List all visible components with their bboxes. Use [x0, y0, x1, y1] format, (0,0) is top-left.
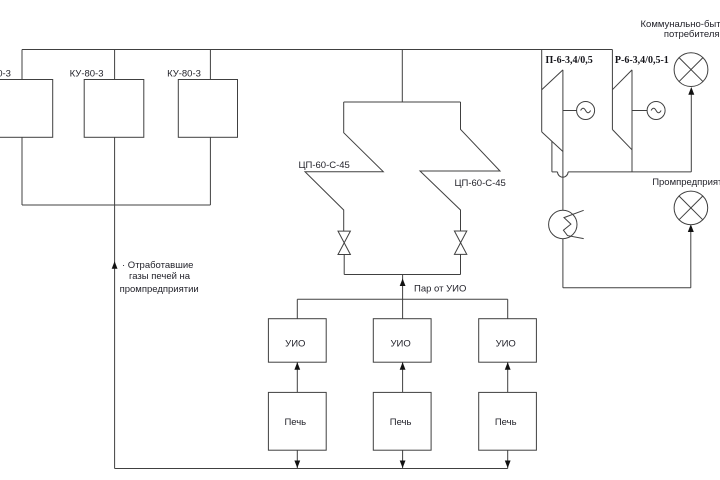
- wire: boiler1 bottom drop: [21, 137, 23, 205]
- wire+arrow furnace3 exhaust down: [505, 450, 511, 468]
- wire: HX outlet down: [562, 239, 564, 288]
- wire: boiler2 top riser: [114, 50, 116, 80]
- valve V2: [454, 231, 466, 254]
- note: waste gases text: [120, 260, 199, 295]
- arrow: flue gas up: [112, 261, 118, 268]
- wire: bottom gas bus: [115, 468, 508, 470]
- unit TsP-60-S-45 #2 (right zigzag leg): [420, 102, 500, 231]
- wire: boiler3 top riser: [209, 50, 211, 80]
- svg-text:КУ-80-3: КУ-80-3: [0, 69, 11, 80]
- svg-text:КУ-80-3: КУ-80-3: [70, 69, 104, 80]
- svg-text:ЦП-60-С-45: ЦП-60-С-45: [299, 160, 350, 171]
- wire: steam riser from UIO collector: [402, 275, 404, 300]
- svg-text:П-6-3,4/0,5: П-6-3,4/0,5: [546, 55, 593, 66]
- box UIO #2: [373, 319, 431, 363]
- svg-text:УИО: УИО: [285, 339, 305, 350]
- box furnace #3: [479, 392, 537, 450]
- wire+arrow furnace3 to UIO3: [505, 362, 511, 392]
- box furnace #1: [268, 392, 326, 450]
- boiler KU-80-3 #2: [84, 80, 144, 138]
- wire+arrow to communal consumers: [688, 87, 694, 172]
- wire: flue-gas collector: [22, 204, 210, 206]
- wire: TsP top header: [344, 101, 461, 103]
- svg-text:· Отработавшие: · Отработавшие: [122, 260, 193, 271]
- svg-text:ЦП-60-С-45: ЦП-60-С-45: [455, 178, 506, 189]
- consumer lamp: communal: [674, 53, 708, 87]
- box UIO #3: [479, 319, 537, 363]
- wire: boiler1 top riser: [21, 50, 23, 80]
- consumer lamp: industry: [674, 191, 708, 225]
- wire+arrow furnace1 to UIO1: [294, 362, 300, 392]
- svg-text:газы печей на: газы печей на: [129, 271, 191, 282]
- svg-text:промпредприятии: промпредприятии: [120, 284, 199, 295]
- label communal consumers: [641, 19, 720, 40]
- wire: valve V1 outlet: [343, 255, 345, 275]
- network heater HX: [549, 210, 584, 238]
- boiler KU-80-3 #1 (left, partially off-canvas): [0, 80, 53, 138]
- wire+arrow furnace2 to UIO2: [400, 362, 406, 392]
- wire: UIO riser 3: [507, 299, 509, 318]
- wire+arrow furnace2 exhaust down: [400, 450, 406, 468]
- svg-text:Пар от УИО: Пар от УИО: [414, 284, 466, 295]
- svg-text:Промпредприятия: Промпредприятия: [652, 177, 720, 188]
- top steam bus wire: [22, 49, 612, 51]
- wire+arrow to industry consumers: [688, 224, 694, 287]
- svg-text:Печь: Печь: [495, 417, 517, 428]
- wire: boiler3 bottom drop: [209, 137, 211, 205]
- wire: UIO collector: [297, 298, 507, 300]
- generator G1: [563, 102, 595, 120]
- wire: TsP inlet from bus: [401, 50, 403, 103]
- box furnace #2: [373, 392, 431, 450]
- svg-text:Печь: Печь: [284, 417, 306, 428]
- wire: boiler2 drop to bottom gas bus: [114, 137, 116, 468]
- svg-text:УИО: УИО: [496, 339, 516, 350]
- svg-text:УИО: УИО: [390, 339, 410, 350]
- wire: extraction steam pipe with hop: [552, 172, 691, 177]
- wire: valve outlet header: [344, 274, 460, 276]
- svg-text:Р-6-3,4/0,5-1: Р-6-3,4/0,5-1: [615, 55, 669, 66]
- box UIO #1: [268, 319, 326, 363]
- generator G2: [632, 102, 665, 120]
- turbine R-6-3,4/0,5-1: [612, 50, 632, 172]
- wire+arrow furnace1 exhaust down: [294, 450, 300, 468]
- valve V1: [338, 231, 350, 254]
- boiler KU-80-3 #3: [178, 80, 237, 138]
- svg-text:Печь: Печь: [390, 417, 412, 428]
- wire: HX bottom run: [563, 287, 691, 289]
- svg-text:КУ-80-3: КУ-80-3: [167, 69, 201, 80]
- svg-text:потребителям: потребителям: [664, 29, 720, 40]
- arrow: steam up to header: [400, 279, 406, 287]
- wire: UIO riser 1: [296, 299, 298, 318]
- unit TsP-60-S-45 #1 (left zigzag leg): [305, 102, 383, 231]
- turbine P-6-3,4/0,5: [542, 50, 563, 211]
- wire: valve V2 outlet: [460, 254, 462, 274]
- wire: UIO riser 2: [402, 299, 404, 318]
